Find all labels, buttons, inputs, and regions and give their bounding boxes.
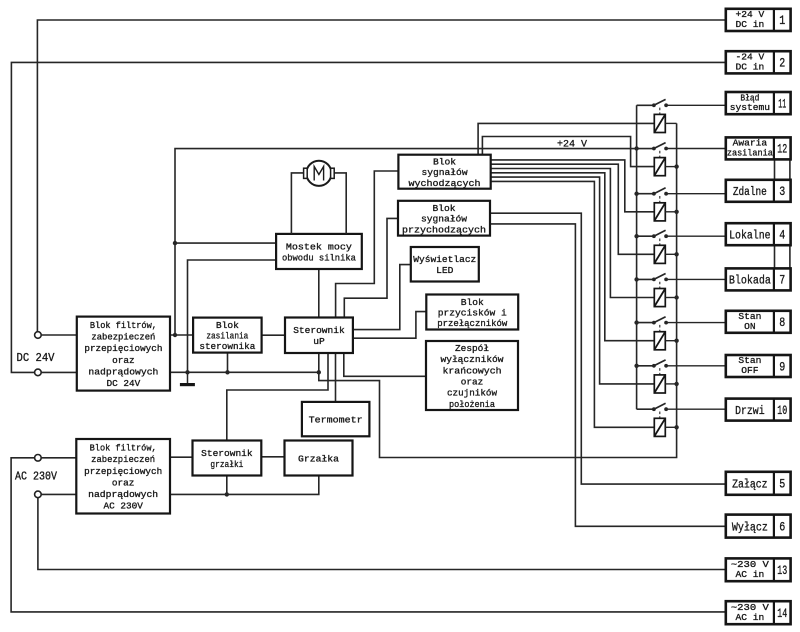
switch K10 contacts: [652, 407, 656, 411]
junction coil common bus row 10: [674, 425, 678, 429]
switch K4 contacts: [652, 234, 656, 238]
svg-text:AC in: AC in: [735, 569, 764, 580]
svg-text:sygnałów: sygnałów: [422, 167, 468, 178]
junction ground bus at uP pin: [317, 370, 321, 374]
relay coil K12: [654, 158, 665, 176]
wire switch K8 to terminal 8: [666, 322, 726, 324]
wire motor bridge supply: [175, 242, 276, 244]
svg-text:nadprądowych: nadprądowych: [88, 366, 158, 377]
svg-text:uP: uP: [313, 336, 325, 347]
wire AC filter to heater controller: [170, 456, 193, 458]
wire coil K8 to common bus: [665, 340, 676, 342]
motor M1 wires: [291, 173, 303, 234]
junction switch bus row 4: [634, 234, 638, 238]
wire switch K4 to terminal 4: [666, 235, 726, 237]
svg-text:Sterownik: Sterownik: [293, 325, 345, 336]
wire outgoing-signals block to relay coil K11: [478, 123, 654, 154]
node DC+ input terminal circle: [35, 332, 42, 339]
block: controller power supply U2: [193, 318, 262, 353]
terminal 11 (Błąd systemu) box: [726, 92, 791, 114]
svg-text:3: 3: [779, 185, 785, 199]
svg-text:sterownika: sterownika: [199, 341, 255, 352]
svg-text:LED: LED: [436, 265, 454, 276]
svg-text:wyłączników: wyłączników: [441, 354, 504, 365]
wire DC- circle to filter block: [41, 371, 77, 373]
switch K9 arm: [654, 360, 666, 366]
svg-text:systemu: systemu: [730, 102, 770, 113]
junction switch bus row 12: [634, 146, 638, 150]
wire outgoing-signals block to relay coil K8: [491, 173, 655, 341]
wire coil K12 to common bus: [665, 166, 676, 168]
svg-text:Blokada: Blokada: [729, 274, 771, 288]
svg-text:7: 7: [779, 274, 785, 288]
svg-text:Blok: Blok: [432, 203, 455, 214]
switch K12 contacts: [652, 147, 656, 151]
wire coil K4 to common bus: [665, 253, 676, 255]
svg-text:przychodzących: przychodzących: [402, 224, 486, 235]
svg-text:DC 24V: DC 24V: [107, 378, 141, 389]
wire AC L circle to filter block: [41, 457, 76, 459]
terminal 12 (Awaria zasilania) box: [726, 137, 791, 159]
svg-text:DC 24V: DC 24V: [17, 352, 55, 365]
svg-text:ON: ON: [744, 321, 756, 332]
node DC- input terminal circle: [35, 369, 42, 376]
svg-text:10: 10: [777, 404, 787, 418]
terminal 3 (Zdalne) box: [726, 180, 791, 202]
relay coil K7: [654, 289, 665, 307]
wire coil K11 to common bus: [665, 122, 676, 124]
junction switch bus row 9: [634, 364, 638, 368]
wire uP to thermometer: [335, 353, 337, 402]
junction coil common bus row 9: [674, 382, 678, 386]
switch K12 arm: [654, 143, 666, 149]
junction switch bus row 8: [634, 320, 638, 324]
block: DC 24V filter/protection: [77, 317, 170, 391]
switch K11 arm: [654, 99, 666, 105]
relay coil K10: [654, 418, 665, 436]
wire heater controller bottom pin: [226, 476, 228, 495]
block: microcontroller U1 Sterownik uP: [285, 318, 353, 354]
block: motor power bridge: [276, 234, 362, 269]
svg-text:Blok filtrów,: Blok filtrów,: [90, 443, 157, 454]
svg-text:AC 230V: AC 230V: [103, 501, 143, 512]
wire outgoing-signals block to relay coil K3: [491, 160, 655, 212]
wire motor bridge return to ground bus: [188, 260, 277, 372]
wire bus stub to switch K11: [637, 104, 654, 106]
motor M1 symbol: [306, 161, 331, 186]
svg-text:sygnałów: sygnałów: [421, 214, 467, 225]
wire bus stub to switch K3: [637, 193, 654, 195]
terminal 2 (-24 V DC in) box: [726, 51, 791, 73]
switch K3 arm: [654, 188, 666, 194]
wire AC neutral bus to heater: [170, 476, 319, 495]
svg-text:4: 4: [779, 229, 785, 243]
switch K8 contacts: [652, 321, 656, 325]
wire switch K7 to terminal 7: [666, 278, 726, 280]
switch K7 contacts: [652, 278, 656, 282]
svg-text:oraz: oraz: [461, 377, 484, 388]
node AC N input terminal circle: [35, 491, 42, 498]
svg-text:krańcowych: krańcowych: [443, 365, 502, 376]
svg-text:OFF: OFF: [741, 365, 759, 376]
svg-text:Zdalne: Zdalne: [733, 185, 767, 199]
svg-text:AC in: AC in: [735, 612, 764, 623]
svg-text:przepięciowych: przepięciowych: [84, 466, 162, 477]
svg-text:obwodu silnika: obwodu silnika: [282, 252, 356, 263]
wire outgoing-signals block to relay coil K7: [491, 169, 655, 298]
svg-text:czujników: czujników: [447, 388, 497, 399]
junction +24V rail at power-supply feed: [173, 333, 177, 337]
svg-text:14: 14: [777, 607, 787, 621]
switch K11 actuator dashed link: [659, 108, 661, 115]
switch K3 contacts: [652, 192, 656, 196]
terminal 13 (~230 V AC in) box: [726, 558, 791, 581]
terminal 1 (+24 V DC in) box: [726, 9, 791, 31]
block: pushbuttons and switches: [426, 295, 518, 330]
svg-text:zabezpieczeń: zabezpieczeń: [91, 332, 155, 343]
svg-text:Blok: Blok: [461, 297, 484, 308]
svg-text:AC 230V: AC 230V: [15, 471, 57, 484]
wire terminal chain 4-7: [774, 245, 776, 268]
wire AC L from input circle down to terminal 14: [11, 458, 726, 612]
svg-text:Termometr: Termometr: [309, 415, 363, 426]
switch K9 actuator dashed link: [659, 368, 661, 375]
wire outgoing-signals block to relay coil K10: [491, 181, 655, 427]
svg-text:nadprądowych: nadprądowych: [88, 489, 158, 500]
ground symbol: [187, 372, 189, 383]
wire coil K7 to common bus: [665, 297, 676, 299]
svg-text:Grzałka: Grzałka: [298, 454, 339, 465]
svg-text:przycisków i: przycisków i: [438, 308, 507, 319]
terminal 9 (Stan OFF) box: [726, 355, 791, 377]
svg-text:położenia: położenia: [449, 399, 495, 410]
svg-text:Zespół: Zespół: [455, 343, 489, 354]
terminal 7 (Blokada) box: [726, 268, 791, 290]
terminal 4 (Lokalne) box: [726, 223, 791, 245]
switch K8 arm: [654, 317, 666, 323]
wire bus stub to switch K8: [637, 322, 654, 324]
junction +24V rail to motor bridge: [173, 241, 177, 245]
wire bus stub to switch K9: [637, 365, 654, 367]
junction coil common bus row 7: [674, 295, 678, 299]
wire +24V from terminal 1 to DC input terminal circle: [37, 20, 725, 332]
wire LED display to uP: [353, 265, 411, 330]
switch K3 actuator dashed link: [659, 196, 661, 203]
block: AC 230V filter/protection: [76, 439, 170, 514]
svg-text:przełączników: przełączników: [437, 318, 507, 329]
switch K4 arm: [654, 230, 666, 236]
switch K7 actuator dashed link: [659, 282, 661, 289]
wire uP to limit-switch assembly: [344, 353, 426, 376]
svg-text:Drzwi: Drzwi: [735, 404, 765, 418]
wire coil K9 to common bus: [665, 383, 676, 385]
terminal 6 (Wyłącz) box: [726, 515, 791, 538]
svg-text:+24 V: +24 V: [557, 139, 588, 151]
wire relay coil common bus return to uP/ground node: [319, 123, 677, 457]
relay coil K8: [654, 332, 665, 350]
wire coil K3 to common bus: [665, 211, 676, 213]
svg-text:Wyświetlacz: Wyświetlacz: [413, 254, 476, 265]
node AC L input terminal circle: [35, 455, 42, 462]
svg-text:5: 5: [779, 478, 785, 492]
svg-text:Wyłącz: Wyłącz: [732, 520, 768, 534]
wire outgoing-signals block to relay coil K4: [491, 164, 655, 254]
wire pushbutton block to uP: [353, 312, 426, 339]
junction ground bus at ground symbol: [185, 370, 189, 374]
wire switch K3 to terminal 3: [666, 193, 726, 195]
wire incoming-signals block to uP (staircase): [344, 218, 398, 317]
switch K4 actuator dashed link: [659, 239, 661, 246]
wire AC N from input circle down to terminal 13: [38, 498, 726, 570]
switch K8 actuator dashed link: [659, 325, 661, 332]
svg-text:6: 6: [779, 520, 785, 534]
switch K12 actuator dashed link: [659, 151, 661, 158]
relay coil K3: [654, 203, 665, 221]
wire switch feed bus: [636, 105, 638, 409]
relay coil K11: [654, 114, 665, 132]
wire switch K9 to terminal 9: [666, 365, 726, 367]
wire switch K10 to terminal 10: [666, 408, 726, 410]
svg-text:8: 8: [779, 316, 785, 330]
svg-text:zabezpieczeń: zabezpieczeń: [91, 454, 155, 465]
wire outgoing-signals block to relay coil K9: [491, 177, 655, 384]
junction heater controller bottom pin: [225, 492, 229, 496]
svg-text:grzałki: grzałki: [210, 459, 243, 470]
terminal 14 (~230 V AC in) box: [726, 601, 791, 624]
terminal 8 (Stan ON) box: [726, 311, 791, 333]
svg-text:Blok filtrów,: Blok filtrów,: [90, 320, 157, 331]
svg-text:wychodzących: wychodzących: [409, 178, 481, 189]
svg-text:Sterownik: Sterownik: [201, 448, 253, 459]
junction switch bus row 7: [634, 277, 638, 281]
svg-text:9: 9: [779, 360, 785, 374]
wire uP to heater controller: [227, 353, 328, 441]
block: thermometer: [302, 402, 370, 436]
wire 0V ground bus under power blocks: [170, 371, 319, 373]
wire -24V from terminal 2 to DC input terminal circle: [11, 62, 725, 372]
svg-text:13: 13: [777, 564, 787, 578]
switch K7 arm: [654, 274, 666, 280]
block: LED display: [411, 247, 479, 282]
svg-text:zasilania: zasilania: [206, 331, 248, 342]
switch K11 contacts: [652, 103, 656, 107]
block: outgoing signals: [398, 155, 490, 189]
wire AC N circle to filter block: [41, 493, 76, 495]
svg-text:oraz: oraz: [112, 355, 135, 366]
svg-text:Blok: Blok: [216, 320, 239, 331]
wire incoming-signals block to terminal 6 (Wylacz): [490, 224, 726, 526]
terminal 5 (Załącz) box: [726, 472, 791, 495]
wire incoming-signals block to terminal 5 (Zalacz): [490, 213, 726, 484]
switch K9 contacts: [652, 364, 656, 368]
relay coil K4: [654, 245, 665, 263]
svg-text:Załącz: Załącz: [732, 478, 768, 492]
svg-text:1: 1: [779, 14, 785, 28]
junction coil common bus row 3: [674, 210, 678, 214]
svg-text:DC in: DC in: [735, 62, 764, 73]
wire terminal chain 12-3: [774, 159, 776, 179]
terminal 10 (Drzwi) box: [726, 399, 791, 421]
wire DC+ circle to filter block: [41, 334, 77, 336]
svg-text:Lokalne: Lokalne: [729, 229, 771, 243]
block: heater controller: [193, 441, 262, 476]
junction switch bus row 3: [634, 192, 638, 196]
svg-text:zasilania: zasilania: [727, 148, 773, 159]
wire motor bridge to uP: [318, 269, 320, 318]
switch K10 actuator dashed link: [659, 412, 661, 419]
svg-text:12: 12: [777, 143, 787, 157]
svg-text:DC in: DC in: [735, 19, 764, 30]
wire bus stub to switch K4: [637, 235, 654, 237]
junction coil common bus row 12: [674, 164, 678, 168]
wire outgoing-signals block to relay coil K12: [482, 137, 654, 167]
svg-text:2: 2: [779, 57, 785, 71]
switch K10 arm: [654, 403, 666, 409]
junction ground bus at power supply block pin: [225, 370, 229, 374]
wire switch K12 to terminal 12: [666, 148, 726, 150]
svg-text:Blok: Blok: [433, 157, 456, 168]
junction coil common bus row 4: [674, 252, 678, 256]
junction coil common bus row 8: [674, 339, 678, 343]
block: limit switches and position sensors: [426, 341, 518, 410]
svg-text:przepięciowych: przepięciowych: [84, 343, 162, 354]
svg-text:11: 11: [778, 97, 786, 111]
block: heater: [285, 441, 353, 476]
svg-text:oraz: oraz: [112, 477, 135, 488]
block: incoming signals: [398, 201, 490, 236]
wire bus stub to switch K7: [637, 278, 654, 280]
wire heater controller to heater: [261, 456, 284, 458]
relay coil K9: [654, 375, 665, 393]
wire outgoing-signals block to uP (staircase): [336, 171, 399, 318]
wire power supply block to uP: [262, 334, 285, 336]
wire coil K10 to common bus: [665, 426, 676, 428]
svg-text:Mostek mocy: Mostek mocy: [286, 242, 352, 253]
wire bus stub to switch K10: [637, 408, 654, 410]
wire +24V rail from DC filter output up and right to relay switch bus: [170, 334, 193, 336]
wire switch K11 to terminal 11: [666, 104, 726, 106]
wire power supply block bottom pin to ground bus: [227, 353, 229, 373]
